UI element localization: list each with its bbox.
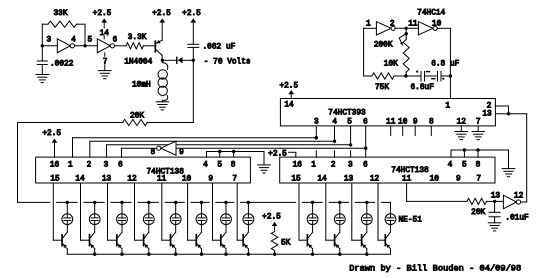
svg-text:12: 12	[370, 176, 380, 184]
svg-text:10K: 10K	[384, 61, 398, 69]
svg-text:2: 2	[487, 103, 492, 111]
svg-text:+2.5: +2.5	[262, 214, 281, 222]
svg-text:16: 16	[293, 162, 303, 170]
svg-text:2: 2	[331, 162, 336, 170]
svg-text:20K: 20K	[130, 112, 144, 120]
svg-text:8: 8	[151, 149, 156, 157]
svg-text:6.8 uF: 6.8 uF	[431, 60, 459, 68]
svg-text:11: 11	[402, 176, 412, 184]
svg-text:75K: 75K	[375, 84, 389, 92]
svg-text:8: 8	[231, 162, 236, 170]
svg-text:13: 13	[491, 192, 501, 200]
svg-text:5: 5	[347, 119, 352, 127]
svg-text:11: 11	[157, 176, 167, 184]
svg-text:74HCT138: 74HCT138	[391, 167, 429, 175]
svg-text:4: 4	[71, 36, 76, 44]
svg-text:7: 7	[476, 176, 481, 184]
svg-text:1: 1	[68, 162, 73, 170]
svg-text:6: 6	[113, 36, 118, 44]
svg-text:3: 3	[104, 162, 109, 170]
svg-text:+2.5: +2.5	[152, 10, 171, 18]
svg-text:3: 3	[46, 37, 51, 45]
svg-text:.01uF: .01uF	[505, 215, 529, 223]
svg-text:+2.5: +2.5	[93, 10, 112, 18]
svg-text:3: 3	[348, 162, 353, 170]
svg-text:+2.5: +2.5	[279, 83, 298, 91]
svg-text:13: 13	[344, 176, 354, 184]
svg-text:+2.5: +2.5	[182, 10, 201, 18]
svg-text:6.8uF: 6.8uF	[411, 84, 435, 92]
svg-text:6: 6	[363, 162, 368, 170]
svg-text:14: 14	[100, 30, 110, 38]
svg-text:+2.5: +2.5	[42, 130, 61, 138]
svg-text:13: 13	[102, 176, 112, 184]
svg-text:10: 10	[182, 176, 192, 184]
svg-text:33K: 33K	[53, 10, 67, 18]
svg-text:15: 15	[50, 176, 60, 184]
svg-text:13: 13	[482, 111, 492, 119]
svg-text:NE-51: NE-51	[399, 217, 423, 225]
svg-text:14: 14	[75, 176, 85, 184]
svg-text:4: 4	[448, 162, 453, 170]
svg-text:15: 15	[291, 176, 301, 184]
svg-text:8: 8	[476, 162, 481, 170]
svg-text:9: 9	[456, 176, 461, 184]
svg-text:1: 1	[366, 21, 371, 29]
svg-text:.0022: .0022	[50, 61, 74, 69]
svg-text:10: 10	[430, 176, 440, 184]
svg-text:200K: 200K	[374, 42, 393, 50]
svg-text:5: 5	[87, 37, 92, 45]
svg-text:6: 6	[118, 162, 123, 170]
svg-text:9: 9	[179, 149, 184, 157]
svg-text:2: 2	[390, 21, 395, 29]
svg-text:7: 7	[232, 176, 237, 184]
svg-text:2: 2	[87, 162, 92, 170]
svg-text:Drawn by - Bill Bouden - 04/09: Drawn by - Bill Bouden - 04/09/98	[349, 264, 521, 274]
svg-text:- 70 Volts: - 70 Volts	[204, 59, 251, 67]
svg-text:12: 12	[127, 176, 137, 184]
svg-text:20K: 20K	[471, 209, 485, 217]
svg-text:10mH: 10mH	[132, 81, 151, 89]
svg-text:1N4004: 1N4004	[124, 58, 152, 66]
svg-text:14: 14	[284, 101, 294, 109]
svg-text:11: 11	[408, 21, 418, 29]
svg-text:1: 1	[311, 162, 316, 170]
svg-text:12: 12	[514, 192, 524, 200]
svg-text:74HCT393: 74HCT393	[328, 109, 366, 117]
svg-text:14: 14	[317, 176, 327, 184]
svg-text:4: 4	[203, 162, 208, 170]
svg-text:5: 5	[217, 162, 222, 170]
svg-text:1: 1	[445, 102, 450, 110]
svg-text:10: 10	[432, 21, 442, 29]
svg-text:3.3K: 3.3K	[128, 34, 147, 42]
svg-text:5K: 5K	[281, 240, 291, 248]
svg-text:.082 uF: .082 uF	[203, 44, 236, 52]
svg-text:7: 7	[103, 59, 108, 67]
svg-text:74HC14: 74HC14	[417, 10, 445, 18]
svg-text:16: 16	[50, 162, 60, 170]
svg-text:9: 9	[208, 176, 213, 184]
svg-text:5: 5	[462, 162, 467, 170]
